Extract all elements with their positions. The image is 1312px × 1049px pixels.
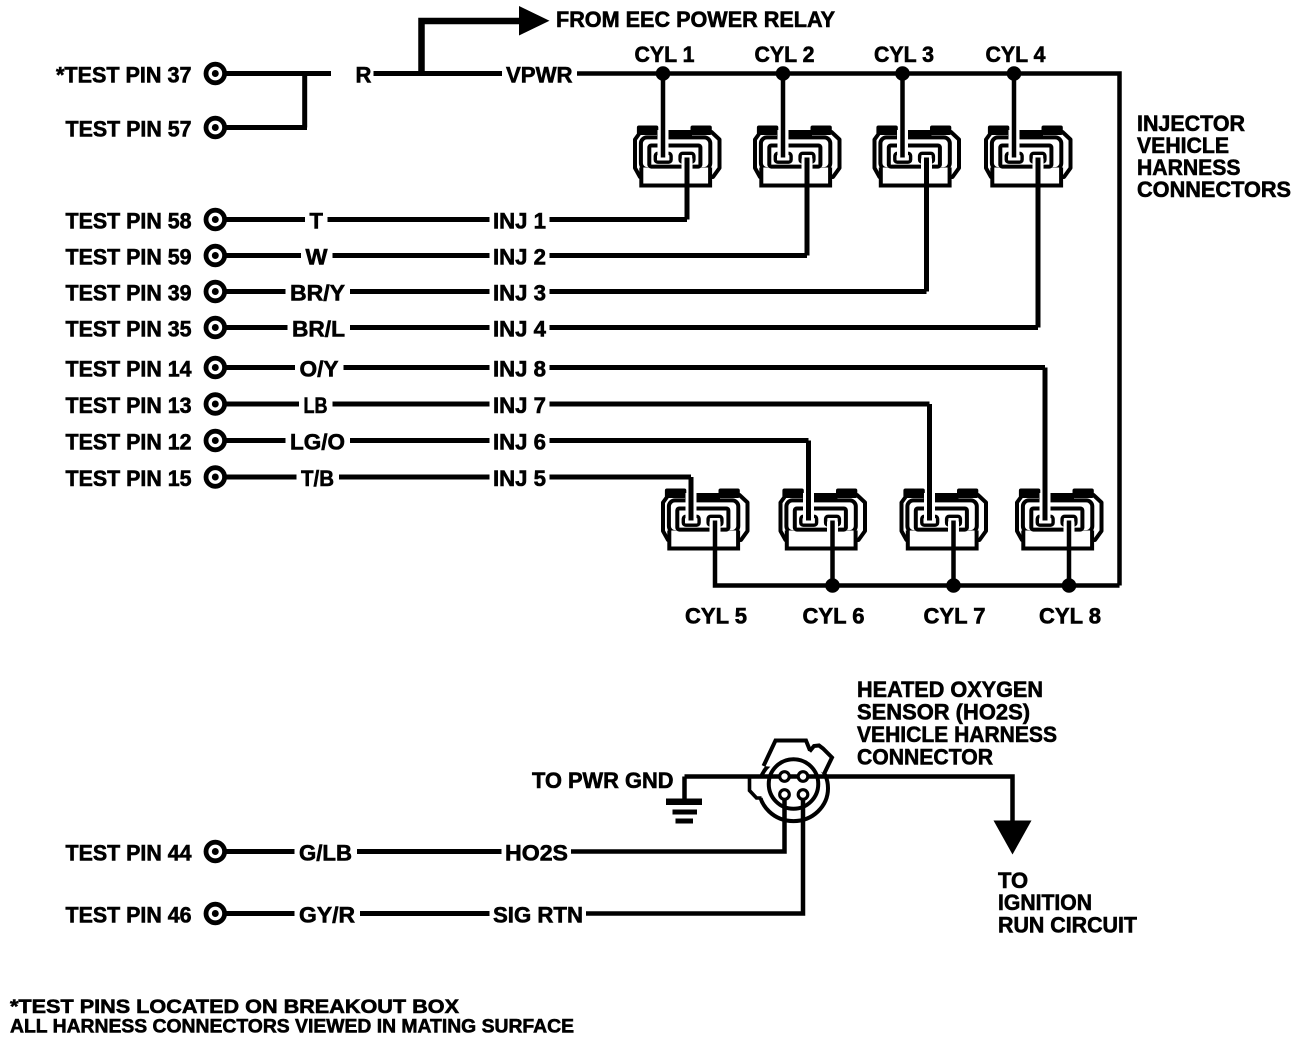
svg-text:INJ 5: INJ 5 <box>493 466 546 491</box>
test pin 46 <box>206 904 225 923</box>
svg-text:T/B: T/B <box>301 466 334 491</box>
wire INJ 7 to connector <box>550 402 930 407</box>
wire INJ 4 to connector <box>550 325 1039 330</box>
wire INJ 7 vertical <box>927 404 932 521</box>
wire INJ 8 vertical <box>1043 368 1048 521</box>
svg-text:SENSOR (HO2S): SENSOR (HO2S) <box>857 700 1030 725</box>
test pin 44 <box>206 842 225 861</box>
injector connector CYL 5 (vehicle harness) <box>663 489 748 549</box>
arrow to FROM EEC POWER RELAY <box>422 21 520 74</box>
svg-text:TEST PIN 13: TEST PIN 13 <box>66 393 192 418</box>
wire LB to INJ 7 label <box>333 402 490 407</box>
svg-text:TEST PIN 59: TEST PIN 59 <box>66 245 192 270</box>
svg-text:INJ 1: INJ 1 <box>493 209 546 234</box>
wire INJ 5 vertical <box>689 477 694 521</box>
injector connector CYL 8 (vehicle harness) <box>1017 489 1102 549</box>
wire INJ 8 to connector <box>550 365 1046 370</box>
wire CYL 2 drop into connector <box>781 74 786 158</box>
junction dot CYL 1 <box>656 66 671 81</box>
ho2s connector right lug <box>806 746 832 775</box>
svg-text:INJ 3: INJ 3 <box>493 281 546 306</box>
ho2s connector pin 2 <box>798 772 808 782</box>
svg-text:SIG RTN: SIG RTN <box>493 903 583 928</box>
svg-text:CYL 3: CYL 3 <box>874 42 934 67</box>
svg-text:CYL 1: CYL 1 <box>635 42 695 67</box>
ho2s connector pin 4 <box>798 790 808 800</box>
wire HO2S sensor pin 3 drop <box>571 798 785 852</box>
svg-text:TEST PIN 15: TEST PIN 15 <box>66 466 192 491</box>
svg-text:CYL 2: CYL 2 <box>755 42 815 67</box>
svg-text:CYL 7: CYL 7 <box>924 604 986 629</box>
test pin 37 <box>206 64 225 83</box>
svg-text:INJ 8: INJ 8 <box>493 357 546 382</box>
test pin 59 <box>206 246 225 265</box>
ho2s connector left step <box>750 775 767 798</box>
wire pin46 to GY/R <box>227 911 295 916</box>
svg-text:INJ 6: INJ 6 <box>493 430 546 455</box>
wire BR/L to INJ 4 label <box>350 325 490 330</box>
svg-text:CONNECTORS: CONNECTORS <box>1137 177 1291 202</box>
svg-text:O/Y: O/Y <box>300 357 339 382</box>
injector connector CYL 1 (vehicle harness) <box>635 126 720 186</box>
wire VPWR bus to right side, down right edge <box>577 74 1120 586</box>
svg-text:GY/R: GY/R <box>299 903 355 928</box>
wire TEST PIN 12 to color label <box>227 438 286 443</box>
injector connector CYL 2 (vehicle harness) <box>755 126 840 186</box>
svg-text:TEST PIN 57: TEST PIN 57 <box>66 117 192 142</box>
wire O/Y to INJ 8 label <box>344 365 490 370</box>
wire CYL 1 drop into connector <box>661 74 666 158</box>
svg-text:T: T <box>310 209 324 234</box>
svg-text:W: W <box>306 245 328 270</box>
test pin 58 <box>206 210 225 229</box>
svg-text:CONNECTOR: CONNECTOR <box>857 745 993 770</box>
junction dot CYL 6 on bus <box>825 578 840 593</box>
wire CYL 6 pin drop to bus <box>830 521 835 586</box>
wire joining pin57 to pin37 line <box>302 74 307 128</box>
wire TEST PIN 39 to color label <box>227 289 286 294</box>
injector connector CYL 4 (vehicle harness) <box>986 126 1071 186</box>
svg-text:TEST PIN 12: TEST PIN 12 <box>66 430 192 455</box>
svg-text:G/LB: G/LB <box>299 841 352 866</box>
wire INJ 2 to connector <box>550 253 808 258</box>
svg-text:TEST PIN 39: TEST PIN 39 <box>66 281 192 306</box>
wire TEST PIN 13 to color label <box>227 402 300 407</box>
svg-text:LB: LB <box>304 393 328 418</box>
wire pin44 to G/LB <box>227 849 295 854</box>
svg-text:INJ 7: INJ 7 <box>493 393 546 418</box>
ground (PWR GND) <box>666 777 702 824</box>
wire INJ 6 to connector <box>550 438 809 443</box>
wire TEST PIN 59 to color label <box>227 253 302 258</box>
wire T/B to INJ 5 label <box>339 475 490 480</box>
wire TEST PIN 14 to color label <box>227 365 296 370</box>
wire GY/R to SIG RTN <box>360 911 490 916</box>
test pin 12 <box>206 431 225 450</box>
junction dot CYL 2 <box>776 66 791 81</box>
wire CYL 8 pin drop to bus <box>1067 521 1072 586</box>
wire HO2S sensor pin 4 drop <box>586 798 803 914</box>
ho2s connector (round, 4-pin) <box>750 741 833 822</box>
svg-text:CYL 6: CYL 6 <box>803 604 865 629</box>
svg-text:INJ 4: INJ 4 <box>493 317 547 342</box>
wire INJ 3 to connector <box>550 289 927 294</box>
wire R to VPWR <box>374 71 503 76</box>
ho2s connector pin 3 <box>780 790 790 800</box>
wire TEST PIN 35 to color label <box>227 325 288 330</box>
wire G/LB to HO2S <box>357 849 502 854</box>
ho2s connector top tab <box>764 741 811 768</box>
wire CYL 4 drop into connector <box>1012 74 1017 158</box>
svg-text:BR/L: BR/L <box>292 317 345 342</box>
wire CYL5 pin to bottom bus to right edge <box>715 521 1120 586</box>
ho2s connector inner circle <box>769 759 819 809</box>
wire INJ 1 vertical <box>685 158 690 220</box>
ho2s connector pin 1 <box>780 772 790 782</box>
wire TEST PIN 58 to color label <box>227 217 306 222</box>
svg-text:TEST PIN 14: TEST PIN 14 <box>66 357 193 382</box>
svg-text:R: R <box>356 63 372 88</box>
wire INJ 3 vertical <box>924 158 929 292</box>
wire W to INJ 2 label <box>333 253 490 258</box>
svg-text:CYL 8: CYL 8 <box>1039 604 1101 629</box>
junction dot CYL 4 <box>1007 66 1022 81</box>
svg-text:TEST PIN 35: TEST PIN 35 <box>66 317 192 342</box>
svg-text:HO2S: HO2S <box>505 841 568 866</box>
wire INJ 5 to connector <box>550 475 692 480</box>
svg-text:CYL 4: CYL 4 <box>986 42 1047 67</box>
svg-text:TEST PIN 58: TEST PIN 58 <box>66 209 192 234</box>
svg-text:TEST PIN 46: TEST PIN 46 <box>66 903 192 928</box>
svg-text:TEST PIN 44: TEST PIN 44 <box>66 841 193 866</box>
junction dot CYL 7 on bus <box>946 578 961 593</box>
wire LG/O to INJ 6 label <box>350 438 490 443</box>
svg-text:BR/Y: BR/Y <box>290 281 345 306</box>
arrowhead to ignition run circuit <box>994 821 1032 855</box>
junction dot CYL 8 on bus <box>1062 578 1077 593</box>
svg-text:VEHICLE HARNESS: VEHICLE HARNESS <box>857 722 1057 747</box>
injector connector CYL 7 (vehicle harness) <box>902 489 987 549</box>
wire BR/Y to INJ 3 label <box>350 289 490 294</box>
svg-text:INJ 2: INJ 2 <box>493 245 546 270</box>
injector connector CYL 6 (vehicle harness) <box>781 489 866 549</box>
wire pin57 <box>227 125 308 130</box>
svg-text:RUN CIRCUIT: RUN CIRCUIT <box>998 913 1138 938</box>
wire TO PWR GND through connector to ignition drop <box>685 777 1013 822</box>
wire pin37 to R <box>227 71 332 76</box>
wire CYL 3 drop into connector <box>900 74 905 158</box>
svg-text:*TEST PIN 37: *TEST PIN 37 <box>56 63 192 88</box>
test pin 39 <box>206 282 225 301</box>
test pin 35 <box>206 318 225 337</box>
svg-text:HEATED OXYGEN: HEATED OXYGEN <box>857 677 1043 702</box>
junction dot CYL 3 <box>895 66 910 81</box>
test pin 13 <box>206 395 225 414</box>
svg-text:ALL HARNESS CONNECTORS VIEWED: ALL HARNESS CONNECTORS VIEWED IN MATING … <box>10 1016 574 1038</box>
svg-text:CYL 5: CYL 5 <box>685 604 747 629</box>
test pin 15 <box>206 468 225 487</box>
injector connector CYL 3 (vehicle harness) <box>875 126 960 186</box>
test pin 14 <box>206 358 225 377</box>
wire INJ 1 to connector <box>550 217 688 222</box>
svg-text:TO PWR GND: TO PWR GND <box>532 768 674 793</box>
test pin 57 <box>206 118 225 137</box>
wire INJ 2 vertical <box>805 158 810 256</box>
svg-text:VPWR: VPWR <box>506 63 573 88</box>
svg-text:IGNITION: IGNITION <box>998 890 1092 915</box>
wire T to INJ 1 label <box>328 217 490 222</box>
svg-text:FROM EEC POWER RELAY: FROM EEC POWER RELAY <box>556 7 835 32</box>
wire TEST PIN 15 to color label <box>227 475 297 480</box>
wire CYL 7 pin drop to bus <box>951 521 956 586</box>
wire INJ 6 vertical <box>806 441 811 521</box>
wire INJ 4 vertical <box>1036 158 1041 328</box>
svg-text:LG/O: LG/O <box>290 430 345 455</box>
